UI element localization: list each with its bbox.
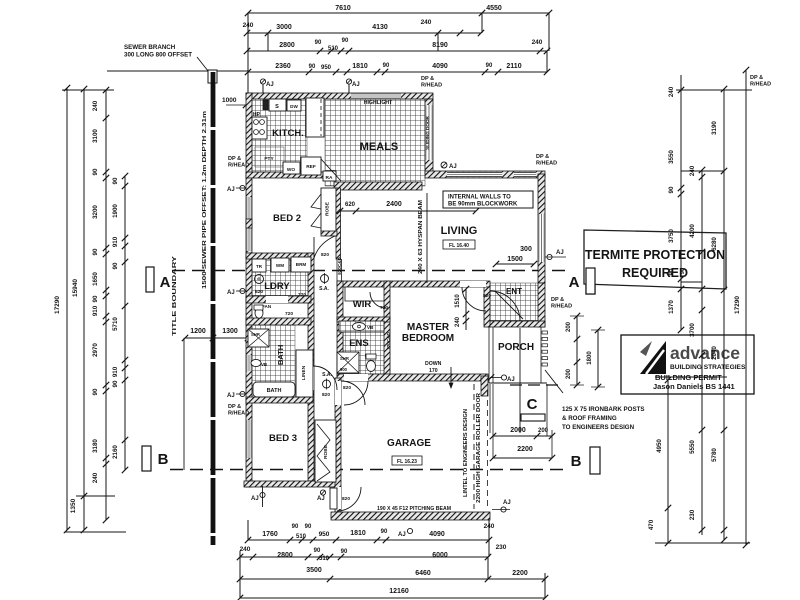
svg-text:BUILDING STRATEGIES: BUILDING STRATEGIES	[670, 364, 746, 371]
svg-text:910: 910	[112, 236, 119, 247]
svg-text:1900: 1900	[112, 204, 119, 218]
svg-text:DP &: DP &	[228, 156, 241, 162]
svg-text:470: 470	[648, 519, 655, 530]
svg-text:DP &: DP &	[551, 297, 564, 303]
svg-text:HIGHLIGHT: HIGHLIGHT	[364, 100, 393, 106]
svg-text:1800: 1800	[587, 351, 593, 365]
svg-text:S.A.: S.A.	[319, 286, 329, 292]
svg-text:B: B	[158, 451, 169, 468]
svg-text:A: A	[569, 274, 580, 291]
svg-text:6460: 6460	[415, 570, 431, 577]
svg-text:2360: 2360	[275, 63, 291, 70]
svg-text:LINTEL TO ENGINEERS DESIGN: LINTEL TO ENGINEERS DESIGN	[463, 409, 469, 497]
svg-text:190 X 45 F12 PITCHING BEAM: 190 X 45 F12 PITCHING BEAM	[377, 506, 451, 512]
svg-text:2110: 2110	[506, 63, 521, 70]
svg-text:1810: 1810	[350, 530, 366, 537]
svg-text:2800: 2800	[279, 42, 295, 49]
svg-text:820: 820	[483, 293, 491, 299]
svg-text:TITLE BOUNDARY: TITLE BOUNDARY	[172, 256, 178, 336]
svg-text:90: 90	[314, 548, 321, 554]
svg-text:620: 620	[345, 202, 356, 208]
svg-text:3750: 3750	[668, 229, 675, 243]
svg-text:2800: 2800	[277, 552, 293, 559]
svg-text:BE 90mm BLOCKWORK: BE 90mm BLOCKWORK	[448, 202, 518, 208]
svg-text:TR: TR	[256, 264, 263, 269]
svg-text:WIR: WIR	[353, 299, 372, 310]
svg-text:R/HEAD: R/HEAD	[228, 163, 249, 169]
svg-text:FL 16.23: FL 16.23	[397, 459, 417, 465]
svg-text:820: 820	[343, 385, 351, 391]
svg-text:DOWN: DOWN	[425, 361, 442, 367]
svg-text:5710: 5710	[112, 317, 119, 331]
svg-text:SHR: SHR	[251, 332, 260, 337]
svg-text:920C&D: 920C&D	[337, 257, 342, 275]
svg-text:& ROOF FRAMING: & ROOF FRAMING	[562, 415, 617, 422]
svg-text:4950: 4950	[656, 439, 663, 453]
svg-text:KITCH.: KITCH.	[272, 128, 304, 139]
svg-text:PTY: PTY	[264, 156, 274, 162]
svg-text:90: 90	[112, 380, 119, 387]
svg-text:1370: 1370	[668, 300, 675, 314]
svg-text:REF: REF	[306, 164, 316, 170]
svg-text:1510: 1510	[455, 294, 461, 308]
svg-text:AJ: AJ	[317, 496, 325, 502]
svg-text:90: 90	[92, 295, 99, 302]
svg-text:3200: 3200	[92, 205, 99, 219]
svg-text:90: 90	[112, 177, 119, 184]
svg-text:3100: 3100	[92, 129, 99, 143]
svg-text:240: 240	[92, 472, 99, 483]
svg-text:LDRY: LDRY	[264, 281, 290, 292]
svg-text:AJ: AJ	[352, 82, 360, 88]
svg-text:90: 90	[305, 524, 312, 530]
svg-text:2200 HIGH GARAGE ROLLER DOOR: 2200 HIGH GARAGE ROLLER DOOR	[476, 393, 482, 503]
svg-text:RA: RA	[326, 175, 333, 181]
svg-text:720: 720	[285, 311, 293, 317]
svg-text:2040: 2040	[711, 346, 718, 360]
svg-text:240: 240	[240, 546, 251, 553]
svg-text:90: 90	[342, 38, 349, 44]
svg-text:1810: 1810	[352, 63, 368, 70]
svg-text:LIVING: LIVING	[441, 225, 478, 237]
svg-text:PORCH: PORCH	[498, 342, 534, 353]
svg-text:FAN: FAN	[262, 304, 272, 309]
svg-text:REQUIRED: REQUIRED	[622, 266, 688, 280]
svg-text:AJ: AJ	[398, 532, 406, 538]
svg-text:VB: VB	[367, 325, 374, 330]
svg-text:4130: 4130	[372, 24, 388, 31]
svg-text:AJ: AJ	[556, 250, 564, 256]
svg-text:90: 90	[668, 186, 675, 193]
svg-text:LINEN: LINEN	[301, 365, 307, 380]
svg-text:90: 90	[92, 168, 99, 175]
svg-text:BUILDING PERMIT: BUILDING PERMIT	[655, 373, 722, 382]
svg-text:200: 200	[566, 321, 572, 332]
svg-text:S.A.: S.A.	[322, 372, 332, 378]
svg-text:AJ: AJ	[507, 377, 515, 383]
svg-text:DP &: DP &	[750, 75, 763, 81]
svg-text:MEALS: MEALS	[360, 141, 399, 153]
svg-text:1300: 1300	[222, 328, 238, 335]
svg-text:5780: 5780	[711, 448, 718, 462]
svg-text:AJ: AJ	[227, 393, 235, 399]
svg-text:TO ENGINEERS DESIGN: TO ENGINEERS DESIGN	[562, 424, 635, 431]
svg-text:R/HEAD: R/HEAD	[750, 82, 771, 88]
svg-text:INTERNAL WALLS TO: INTERNAL WALLS TO	[448, 195, 511, 201]
svg-text:AJ: AJ	[449, 164, 457, 170]
svg-text:B: B	[571, 453, 582, 470]
svg-text:4200: 4200	[689, 224, 696, 238]
svg-text:125 X 75 IRONBARK POSTS: 125 X 75 IRONBARK POSTS	[562, 406, 645, 413]
svg-text:2200: 2200	[517, 446, 533, 453]
svg-text:C: C	[527, 396, 538, 413]
svg-text:90: 90	[486, 63, 493, 69]
svg-text:17290: 17290	[54, 296, 61, 314]
svg-text:1350: 1350	[70, 498, 77, 513]
svg-text:BATH: BATH	[276, 345, 285, 365]
svg-text:300: 300	[520, 246, 532, 253]
svg-text:820: 820	[321, 252, 329, 258]
svg-text:A: A	[160, 274, 171, 291]
svg-text:GARAGE: GARAGE	[387, 438, 431, 449]
svg-text:170: 170	[429, 368, 438, 374]
svg-text:4550: 4550	[486, 5, 502, 12]
svg-text:WO: WO	[287, 167, 296, 173]
svg-text:820: 820	[342, 496, 350, 502]
svg-text:910: 910	[112, 366, 119, 377]
svg-text:17290: 17290	[734, 296, 741, 314]
svg-text:90: 90	[341, 549, 348, 555]
svg-text:SLIDING DOOR: SLIDING DOOR	[425, 115, 430, 149]
svg-text:1000: 1000	[222, 97, 237, 104]
svg-text:1200: 1200	[190, 328, 206, 335]
svg-text:90: 90	[680, 268, 686, 274]
svg-text:DP &: DP &	[228, 404, 241, 410]
svg-text:3190: 3190	[711, 121, 718, 135]
svg-text:720: 720	[380, 305, 388, 311]
svg-text:90: 90	[668, 268, 675, 275]
svg-text:4090: 4090	[429, 531, 445, 538]
svg-text:90: 90	[112, 262, 119, 269]
svg-text:510: 510	[328, 46, 339, 52]
svg-text:SEWER BRANCH: SEWER BRANCH	[124, 44, 176, 51]
svg-text:240: 240	[668, 86, 675, 97]
svg-text:BEDROOM: BEDROOM	[402, 333, 454, 344]
svg-text:910: 910	[92, 305, 99, 316]
svg-text:820: 820	[322, 392, 330, 398]
svg-text:90: 90	[92, 248, 99, 255]
svg-text:ROBE: ROBE	[323, 444, 329, 459]
svg-text:FL 16.40: FL 16.40	[449, 243, 469, 249]
svg-text:MASTER: MASTER	[407, 322, 450, 333]
svg-text:DP &: DP &	[536, 154, 549, 160]
svg-text:1500: 1500	[507, 256, 523, 263]
svg-text:720C&D: 720C&D	[386, 332, 391, 350]
svg-text:advance: advance	[670, 343, 740, 363]
svg-text:DW: DW	[290, 104, 298, 109]
svg-text:BED 3: BED 3	[269, 433, 297, 444]
svg-text:AJ: AJ	[266, 82, 274, 88]
svg-text:510: 510	[319, 556, 330, 562]
svg-text:7610: 7610	[335, 5, 351, 12]
svg-text:3500: 3500	[306, 567, 322, 574]
svg-text:15940: 15940	[72, 279, 79, 297]
svg-text:90: 90	[309, 64, 316, 70]
svg-text:VB: VB	[261, 362, 267, 367]
svg-text:S: S	[275, 104, 279, 110]
svg-text:BRM: BRM	[296, 262, 307, 267]
svg-text:AJ: AJ	[227, 187, 235, 193]
svg-text:WM: WM	[276, 263, 284, 268]
svg-text:230: 230	[689, 509, 696, 520]
svg-text:ENS: ENS	[349, 338, 369, 349]
svg-text:240: 240	[532, 39, 543, 46]
svg-text:3180: 3180	[92, 439, 99, 453]
svg-text:BED 2: BED 2	[273, 213, 301, 224]
svg-text:300 LONG 800 OFFSET: 300 LONG 800 OFFSET	[124, 52, 192, 59]
svg-text:90: 90	[381, 529, 388, 535]
svg-text:240: 240	[92, 100, 99, 111]
svg-text:2000: 2000	[510, 427, 526, 434]
svg-text:3000: 3000	[276, 24, 292, 31]
svg-text:3700: 3700	[689, 323, 696, 337]
svg-text:8190: 8190	[432, 42, 448, 49]
svg-text:240: 240	[455, 316, 461, 327]
svg-text:900: 900	[340, 367, 348, 372]
svg-text:AJ: AJ	[503, 500, 511, 506]
svg-text:2400: 2400	[386, 201, 402, 208]
svg-text:6000: 6000	[432, 552, 448, 559]
svg-text:3550: 3550	[668, 150, 675, 164]
svg-text:2200: 2200	[512, 570, 528, 577]
svg-text:1650: 1650	[92, 272, 99, 286]
svg-text:950: 950	[321, 65, 332, 71]
svg-text:950: 950	[319, 531, 330, 538]
svg-text:1760: 1760	[262, 531, 278, 538]
svg-text:2160: 2160	[112, 445, 119, 459]
svg-text:BATH: BATH	[267, 388, 282, 394]
svg-text:820: 820	[255, 289, 263, 295]
svg-text:230: 230	[496, 544, 507, 551]
svg-text:R/HEAD: R/HEAD	[551, 304, 572, 310]
svg-text:240: 240	[421, 19, 432, 26]
svg-text:510: 510	[296, 534, 307, 540]
svg-text:5550: 5550	[689, 440, 696, 454]
svg-text:2970: 2970	[92, 343, 99, 357]
svg-text:ROBE: ROBE	[325, 201, 331, 216]
svg-text:AJ: AJ	[227, 290, 235, 296]
svg-text:R/HEAD: R/HEAD	[421, 83, 442, 89]
svg-text:SHR: SHR	[340, 356, 349, 361]
svg-text:90: 90	[383, 63, 390, 69]
svg-text:90: 90	[292, 524, 299, 530]
svg-text:200: 200	[566, 368, 572, 379]
svg-text:6280: 6280	[711, 237, 718, 251]
svg-text:4090: 4090	[432, 63, 448, 70]
svg-text:12160: 12160	[389, 588, 409, 595]
svg-text:90: 90	[315, 40, 322, 46]
svg-text:DP &: DP &	[421, 76, 434, 82]
svg-text:90: 90	[92, 388, 99, 395]
svg-text:R/HEAD: R/HEAD	[536, 161, 557, 167]
svg-text:720: 720	[298, 292, 306, 298]
svg-text:ENT: ENT	[506, 287, 522, 296]
svg-text:1500 SEWER PIPE OFFSET: 1.2m D: 1500 SEWER PIPE OFFSET: 1.2m DEPTH 2.31m	[202, 111, 208, 289]
svg-text:R/HEAD: R/HEAD	[228, 411, 249, 417]
svg-text:AJ: AJ	[251, 496, 259, 502]
